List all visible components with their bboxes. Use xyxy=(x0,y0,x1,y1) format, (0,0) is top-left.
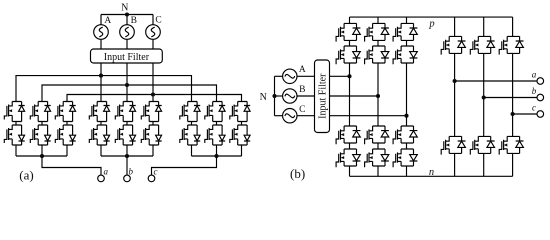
rectifier switch An lower MOSFET+diode xyxy=(336,149,360,167)
wire filter out C / column Cb riser (a) xyxy=(152,63,154,102)
svg-text:C: C xyxy=(155,16,161,26)
wire inverter leg b bottom lead (b) xyxy=(483,153,485,176)
svg-text:A: A xyxy=(299,65,306,75)
node N junction (a) xyxy=(125,12,129,16)
switch SBb upper MOSFET+diode QBb1 xyxy=(115,102,135,122)
wire inverter leg b top lead (b) xyxy=(483,17,485,36)
wire rectifier Ap mid link (b) xyxy=(349,40,351,46)
wire rectifier leg B top lead (b) xyxy=(377,17,379,23)
wire bus phase C (a) xyxy=(67,95,242,102)
svg-text:n: n xyxy=(429,167,434,178)
wire SAb bottom lead xyxy=(100,145,102,156)
wire N to source B (b) xyxy=(275,95,283,97)
wire SBc bottom lead xyxy=(216,145,218,156)
wire SBb mid link xyxy=(126,122,128,126)
svg-text:B: B xyxy=(299,85,305,95)
wire SAc bottom lead xyxy=(191,145,193,156)
wire rectifier leg A middle (b) xyxy=(349,63,351,126)
svg-text:A: A xyxy=(104,16,111,26)
node N junction (b) xyxy=(272,94,276,98)
rectifier switch Bn upper MOSFET+diode xyxy=(365,126,389,144)
switch SAc upper MOSFET+diode QAc1 xyxy=(180,102,200,122)
switch SCb upper MOSFET+diode QCb1 xyxy=(141,102,161,122)
switch SBc upper MOSFET+diode QBc1 xyxy=(205,102,225,122)
input filter block (a) xyxy=(91,49,163,63)
rectifier switch Bn lower MOSFET+diode xyxy=(365,149,389,167)
node rail b junction (a) xyxy=(125,154,129,158)
svg-text:c: c xyxy=(532,103,536,113)
svg-text:b: b xyxy=(532,86,537,96)
wire SBc mid link xyxy=(216,122,218,126)
wire rectifier leg C top lead (b) xyxy=(406,17,408,23)
rectifier switch Bp lower MOSFET+diode xyxy=(365,46,389,64)
wire SAa bottom lead xyxy=(15,145,17,156)
wire DC link rail n (b) xyxy=(350,175,513,177)
wire source C to filter (a) xyxy=(152,39,154,49)
wire output rail c (a) xyxy=(192,155,242,157)
AC source C (b) xyxy=(283,109,297,123)
wire rectifier leg A top lead (b) xyxy=(349,17,351,23)
switch SCc lower MOSFET+diode QCc2 xyxy=(230,125,250,145)
svg-text:(b): (b) xyxy=(290,166,305,181)
wire phase A to rectifier (b) xyxy=(330,75,350,77)
switch SAb upper MOSFET+diode QAb1 xyxy=(89,102,109,122)
switch SCa upper MOSFET+diode QCa1 xyxy=(55,102,75,122)
node inverter output b (b) xyxy=(482,95,486,99)
wire SCa bottom lead xyxy=(66,145,68,156)
wire rectifier Bp mid link (b) xyxy=(377,40,379,46)
node bus A tap (a) xyxy=(99,74,103,78)
rectifier switch Cp lower MOSFET+diode xyxy=(393,46,417,64)
wire rectifier leg B bottom lead (b) xyxy=(377,166,379,176)
svg-text:N: N xyxy=(260,92,267,103)
wire source A to filter (b) xyxy=(297,75,315,77)
wire neutral bus top (a) xyxy=(101,14,153,16)
wire N to source A (b) xyxy=(275,75,283,77)
node inverter output c (b) xyxy=(511,112,515,116)
node rail a junction (a) xyxy=(40,154,44,158)
switch SBa lower MOSFET+diode QBa2 xyxy=(30,125,50,145)
rectifier switch Ap upper MOSFET+diode xyxy=(336,23,360,41)
wire source B to filter (b) xyxy=(297,95,315,97)
wire SCa mid link xyxy=(66,122,68,126)
svg-text:p: p xyxy=(428,19,434,30)
wire output a (b) xyxy=(455,80,537,82)
wire phase B to rectifier (b) xyxy=(330,95,379,97)
switch SCa lower MOSFET+diode QCa2 xyxy=(55,125,75,145)
rectifier switch Cn upper MOSFET+diode xyxy=(393,126,417,144)
switch SAa upper MOSFET+diode QAa1 xyxy=(4,102,24,122)
inverter switch bn MOSFET+diode xyxy=(470,136,494,154)
terminal b (b) xyxy=(537,94,544,101)
rectifier switch Cn lower MOSFET+diode xyxy=(393,149,417,167)
terminal a (b) xyxy=(537,78,544,85)
svg-text:a: a xyxy=(104,166,109,176)
wire rectifier leg A bottom lead (b) xyxy=(349,166,351,176)
terminal b (a) xyxy=(124,175,131,182)
wire inverter leg c middle (b) xyxy=(512,53,514,136)
wire rectifier Cp mid link (b) xyxy=(406,40,408,46)
wire inverter leg c bottom lead (b) xyxy=(512,153,514,176)
svg-text:B: B xyxy=(131,16,137,26)
node inverter output a (b) xyxy=(453,79,457,83)
svg-text:c: c xyxy=(154,166,158,176)
wire rectifier Cn mid link (b) xyxy=(406,143,408,149)
rectifier switch Cp upper MOSFET+diode xyxy=(393,23,417,41)
rectifier switch An upper MOSFET+diode xyxy=(336,126,360,144)
svg-text:(a): (a) xyxy=(19,167,33,182)
AC source A (b) xyxy=(283,69,297,83)
wire to terminal c (a) xyxy=(152,156,217,175)
wire SCc bottom lead xyxy=(241,145,243,156)
rectifier switch Ap lower MOSFET+diode xyxy=(336,46,360,64)
switch SBb lower MOSFET+diode QBb2 xyxy=(115,125,135,145)
switch SAc lower MOSFET+diode QAc2 xyxy=(180,125,200,145)
wire N to source C (b) xyxy=(275,115,283,117)
wire source C riser (a) xyxy=(152,15,154,25)
node rectifier leg B midpoint (b) xyxy=(376,94,380,98)
wire inverter leg a bottom lead (b) xyxy=(454,153,456,176)
wire inverter leg a middle (b) xyxy=(454,53,456,136)
wire phase C to rectifier (b) xyxy=(330,115,407,117)
wire SBb bottom lead xyxy=(126,145,128,156)
wire output rail a (a) xyxy=(16,155,67,157)
node bus C tap (a) xyxy=(151,92,155,96)
wire source A to filter (a) xyxy=(100,39,102,49)
wire rectifier An mid link (b) xyxy=(349,143,351,149)
inverter switch ap MOSFET+diode xyxy=(441,36,465,54)
wire bus phase B (a) xyxy=(42,85,217,102)
node rail c junction (a) xyxy=(214,154,218,158)
wire source C to filter (b) xyxy=(297,115,315,117)
wire SAb mid link xyxy=(100,122,102,126)
wire rectifier leg C bottom lead (b) xyxy=(406,166,408,176)
input filter block (b) xyxy=(315,60,330,133)
rectifier switch Bp upper MOSFET+diode xyxy=(365,23,389,41)
wire rectifier Bn mid link (b) xyxy=(377,143,379,149)
AC source A (a) xyxy=(94,25,109,40)
switch SAa lower MOSFET+diode QAa2 xyxy=(4,125,24,145)
wire inverter leg a top lead (b) xyxy=(454,17,456,36)
terminal c (b) xyxy=(537,111,544,118)
wire output c (b) xyxy=(513,113,537,115)
wire neutral bus (b) xyxy=(274,76,276,115)
wire inverter leg c top lead (b) xyxy=(512,17,514,36)
svg-text:N: N xyxy=(121,2,128,13)
switch SCb lower MOSFET+diode QCb2 xyxy=(141,125,161,145)
node bus B tap (a) xyxy=(125,83,129,87)
AC source B (a) xyxy=(120,25,135,40)
wire rectifier leg B middle (b) xyxy=(377,63,379,126)
terminal a (a) xyxy=(98,175,105,182)
wire to terminal b (a) xyxy=(126,156,128,175)
wire source B to filter (a) xyxy=(126,39,128,49)
wire source A riser (a) xyxy=(100,15,102,25)
svg-text:Input Filter: Input Filter xyxy=(104,52,150,63)
wire to terminal a (a) xyxy=(42,156,101,175)
wire source B riser (a) xyxy=(126,15,128,25)
svg-text:C: C xyxy=(299,105,305,115)
wire filter out B / column Bb riser (a) xyxy=(126,63,128,102)
node rectifier leg C midpoint (b) xyxy=(404,114,408,118)
svg-text:Input Filter: Input Filter xyxy=(318,73,329,119)
wire SAc mid link xyxy=(191,122,193,126)
wire output rail b (a) xyxy=(101,155,153,157)
terminal c (a) xyxy=(148,175,155,182)
wire SBa bottom lead xyxy=(41,145,43,156)
AC source C (a) xyxy=(146,25,161,40)
wire SCb mid link xyxy=(152,122,154,126)
inverter switch cp MOSFET+diode xyxy=(499,36,523,54)
switch SCc upper MOSFET+diode QCc1 xyxy=(230,102,250,122)
svg-text:a: a xyxy=(532,70,537,80)
switch SAb lower MOSFET+diode QAb2 xyxy=(89,125,109,145)
wire SAa mid link xyxy=(15,122,17,126)
wire filter out A / column Ab riser (a) xyxy=(100,63,102,102)
svg-text:b: b xyxy=(129,166,134,176)
wire SCb bottom lead xyxy=(152,145,154,156)
wire output b (b) xyxy=(484,97,537,99)
wire rectifier leg C middle (b) xyxy=(406,63,408,126)
wire inverter leg b middle (b) xyxy=(483,53,485,136)
node rectifier leg A midpoint (b) xyxy=(347,74,351,78)
inverter switch an MOSFET+diode xyxy=(441,136,465,154)
switch SBa upper MOSFET+diode QBa1 xyxy=(30,102,50,122)
inverter switch bp MOSFET+diode xyxy=(470,36,494,54)
AC source B (b) xyxy=(283,89,297,103)
inverter switch cn MOSFET+diode xyxy=(499,136,523,154)
wire SCc mid link xyxy=(241,122,243,126)
wire DC link rail p (b) xyxy=(350,16,513,18)
wire SBa mid link xyxy=(41,122,43,126)
switch SBc lower MOSFET+diode QBc2 xyxy=(205,125,225,145)
wire bus phase A (a) xyxy=(16,76,192,102)
